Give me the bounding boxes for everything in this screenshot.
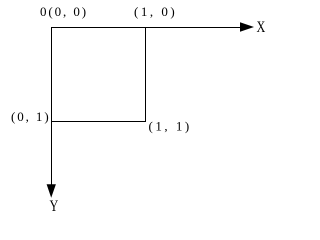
svg-text:(1, 1): (1, 1) (149, 118, 192, 133)
svg-text:X: X (257, 19, 266, 36)
svg-text:Y: Y (50, 198, 59, 215)
svg-text:(1, 0): (1, 0) (134, 4, 177, 19)
X axis arrowhead (240, 22, 254, 31)
svg-text:(0, 1): (0, 1) (11, 109, 51, 124)
Y axis arrowhead (47, 184, 56, 198)
svg-text:0(0, 0): 0(0, 0) (40, 4, 88, 19)
Y axis line (51, 27, 53, 185)
square right edge wire (145, 27, 147, 122)
X axis line (51, 27, 241, 29)
square bottom edge wire (51, 121, 146, 123)
